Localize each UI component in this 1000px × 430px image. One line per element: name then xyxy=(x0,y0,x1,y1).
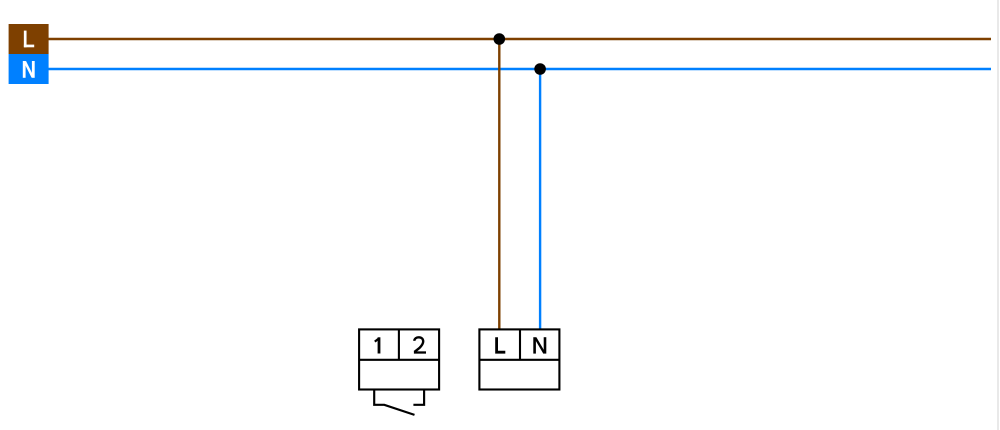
terminal block SW (switch terminals 1,2) xyxy=(359,329,439,389)
junction on N wire xyxy=(534,63,546,75)
pin label L xyxy=(497,337,506,352)
pin label N xyxy=(535,337,545,353)
wire N horizontal (blue line) xyxy=(49,68,992,70)
switch contact symbol xyxy=(374,390,424,415)
junction on L wire xyxy=(494,33,506,45)
net label N (neutral) xyxy=(9,54,49,84)
wire N drop (blue vertical) xyxy=(539,69,541,330)
net label L (supply line) xyxy=(9,24,49,54)
pin label 2 xyxy=(414,337,423,352)
pin label 1 xyxy=(375,337,379,353)
wire L horizontal (brown line) xyxy=(49,38,992,40)
terminal block LOAD (L,N) xyxy=(479,329,559,389)
wire L drop (brown vertical) xyxy=(498,39,500,330)
right edge border xyxy=(997,0,999,430)
